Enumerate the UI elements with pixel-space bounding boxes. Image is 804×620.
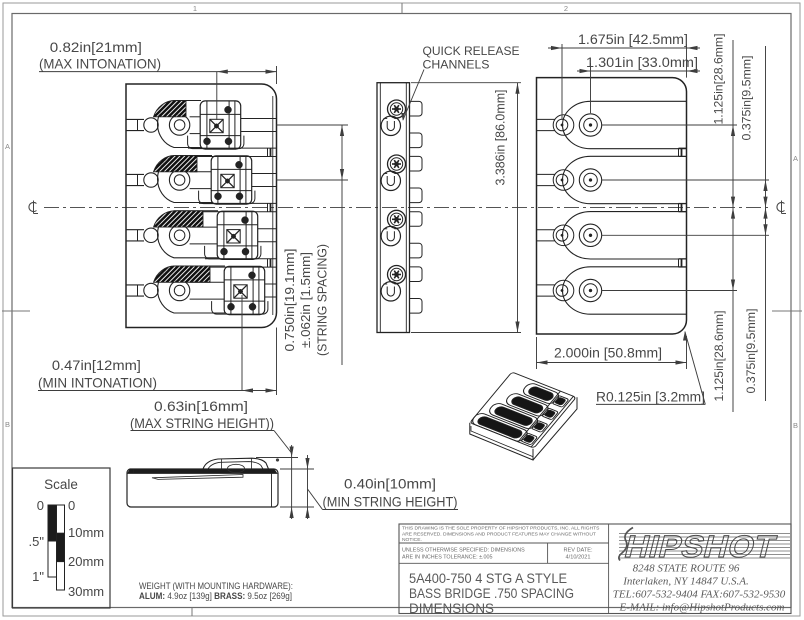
svg-text:5A400-750 4 STG A STYLE: 5A400-750 4 STG A STYLE [409, 570, 567, 586]
bottom view string channel 2 [537, 173, 555, 175]
svg-text:B: B [5, 420, 10, 429]
svg-text:QUICK RELEASE: QUICK RELEASE [423, 44, 520, 58]
svg-text:(MIN INTONATION): (MIN INTONATION) [38, 376, 157, 391]
dimension 3.386in extension lines [411, 82, 521, 84]
centerline [44, 207, 770, 209]
svg-text:1.675in [42.5mm]: 1.675in [42.5mm] [578, 32, 688, 47]
saddle 2 top view base outline [158, 156, 212, 203]
saddle 4 top view string tab [127, 284, 145, 286]
svg-text:0.82in[21mm]: 0.82in[21mm] [50, 40, 142, 55]
rear view saddle 3 height screw [388, 210, 406, 228]
saddle 1 screws black dots [225, 106, 232, 113]
side view left step [133, 469, 135, 474]
leader max string height [274, 431, 292, 454]
svg-text:30mm: 30mm [68, 584, 104, 599]
string line extensions right of top view [277, 124, 349, 126]
svg-text:2: 2 [564, 4, 568, 13]
saddle 1 hatched ramp [154, 100, 187, 116]
saddle 1 screw neck [190, 116, 201, 118]
saddle 2 exit channel [252, 173, 277, 175]
leader min string height [308, 489, 323, 510]
svg-text:1.125in[28.6mm]: 1.125in[28.6mm] [712, 34, 726, 125]
saddle 3 hatched ramp [154, 211, 204, 227]
quick release slot 2 top view [199, 202, 277, 204]
svg-text:1.301in [33.0mm]: 1.301in [33.0mm] [586, 55, 698, 70]
saddle 4 screws black dots [249, 272, 256, 279]
saddle 4 exit channel [265, 283, 277, 285]
svg-text:0.750in[19.1mm]: 0.750in[19.1mm] [283, 249, 297, 352]
svg-text:REV DATE:: REV DATE: [563, 548, 593, 554]
bottom view screw hole 1 [556, 119, 568, 131]
bottom view saddle pocket 3 [563, 212, 687, 259]
dimension 1.301in [577, 70, 700, 72]
svg-text:E-MAIL: info@HipshotProducts.c: E-MAIL: info@HipshotProducts.com [619, 602, 785, 614]
svg-text:3.386in [86.0mm]: 3.386in [86.0mm] [494, 90, 508, 186]
saddle 2 top view string ferrule [169, 170, 189, 190]
svg-text:NOTICE.: NOTICE. [402, 537, 422, 543]
saddle 2 string groove bowtie [221, 174, 234, 187]
saddle 4 top view string ferrule [169, 280, 189, 300]
bottom view screw pocket 3 [553, 225, 574, 246]
bottom view saddle pocket 1 [563, 101, 687, 148]
saddle 4 block [224, 266, 265, 314]
extension line saddle1 screw [216, 72, 218, 120]
svg-text:A: A [793, 154, 798, 163]
saddle 1 top view string hole small [144, 118, 158, 132]
max string height dimension [256, 457, 298, 459]
svg-text:(MAX STRING HEIGHT)): (MAX STRING HEIGHT)) [130, 416, 274, 431]
min string height dimension [280, 506, 314, 508]
svg-text:10mm: 10mm [68, 525, 104, 540]
zone tick left [2, 310, 30, 312]
rear view saddle 2 height screw [388, 155, 406, 173]
saddle 1 block [200, 101, 241, 149]
bottom view plate [537, 78, 687, 334]
centerline symbol right [777, 201, 786, 214]
dimension 0.375in vertical line [765, 46, 767, 401]
dimension 0.47in dim line [38, 390, 277, 392]
extension line plate right top [276, 66, 278, 84]
svg-text:(MAX INTONATION): (MAX INTONATION) [39, 57, 161, 72]
svg-text:1: 1 [193, 4, 197, 13]
svg-text:0: 0 [37, 498, 44, 513]
saddle 3 top view string ferrule [169, 225, 189, 245]
svg-text:BASS BRIDGE .750 SPACING: BASS BRIDGE .750 SPACING [409, 585, 574, 601]
svg-text:20mm: 20mm [68, 554, 104, 569]
rear view saddle 1 posts [410, 101, 423, 116]
bottom view screw pocket 2 [553, 170, 574, 191]
saddle 4 hatched ramp [154, 266, 211, 282]
svg-text:UNLESS OTHERWISE SPECIFIED: DI: UNLESS OTHERWISE SPECIFIED: DIMENSIONS [402, 548, 525, 554]
saddle 1 exit channel [241, 118, 277, 120]
svg-text:CHANNELS: CHANNELS [423, 58, 490, 72]
svg-text:Interlaken, NY 14847 U.S.A.: Interlaken, NY 14847 U.S.A. [622, 576, 749, 588]
extension lines for 2.000in [536, 337, 538, 369]
saddle 4 screw neck [190, 281, 225, 283]
saddle 2 screw neck [190, 171, 212, 173]
svg-text:(STRING SPACING): (STRING SPACING) [316, 244, 330, 356]
zone tick bottom [191, 608, 193, 617]
side view top face dark edge [128, 469, 278, 474]
svg-text:ALUM: 4.9oz [139g] BRASS: 9.5o: ALUM: 4.9oz [139g] BRASS: 9.5oz [269g] [139, 591, 292, 601]
bottom view screw pocket 4 [553, 280, 574, 301]
saddle 3 screws black dots [242, 217, 249, 224]
title block outline [399, 524, 791, 614]
svg-text:±.062in [1.5mm]: ±.062in [1.5mm] [299, 252, 313, 348]
bottom view string channel 4 [537, 284, 555, 286]
top view bridge plate [126, 84, 277, 328]
svg-text:0.47in[12mm]: 0.47in[12mm] [52, 358, 141, 373]
svg-text:2.000in [50.8mm]: 2.000in [50.8mm] [554, 346, 662, 361]
zone tick top [401, 3, 403, 14]
bottom view string channel 1 [537, 118, 555, 120]
dimension 2.000in [537, 362, 687, 364]
svg-text:A: A [5, 142, 10, 151]
bottom view screw pocket 1 [553, 115, 574, 136]
svg-text:TEL:607-532-9404 FAX:607-532-9: TEL:607-532-9404 FAX:607-532-9530 [613, 589, 786, 601]
bottom view string ferrule 4 [579, 279, 601, 301]
bottom view screw hole 3 [556, 230, 568, 242]
saddle 3 foot plate [205, 246, 261, 259]
dimension 1.125in vertical line [732, 40, 734, 412]
bottom view screw hole 4 [556, 285, 568, 297]
quick release leader [403, 70, 424, 121]
dimension 1.675in [548, 47, 700, 49]
bottom view quick release slot 2 [679, 202, 687, 204]
rear view saddle 2 posts [410, 156, 423, 171]
saddle 3 top view base outline [158, 211, 218, 258]
rear view saddle 3 posts [410, 212, 423, 227]
quick release slot 1 top view [188, 147, 277, 149]
svg-text:8248 STATE ROUTE 96: 8248 STATE ROUTE 96 [633, 563, 740, 575]
rear view saddle 1 height screw [388, 100, 406, 118]
svg-text:1.125in[28.6mm]: 1.125in[28.6mm] [712, 311, 726, 402]
saddle 1 top view base outline [158, 101, 201, 148]
rear view plate [377, 83, 410, 333]
saddle 1 string groove bowtie [210, 119, 223, 132]
saddle 3 string groove bowtie [227, 230, 240, 243]
rear view saddle 3 release channel [381, 226, 400, 245]
string line extensions right of bottom view [602, 124, 737, 126]
rear view saddle 2 release channel [381, 171, 400, 190]
string spacing dimension line [341, 125, 343, 365]
svg-text:ARE RESERVED. DIMENSIONS AND P: ARE RESERVED. DIMENSIONS AND PRODUCT FEA… [402, 531, 596, 537]
saddle 4 foot plate [212, 301, 268, 314]
saddle 3 top view string tab [127, 229, 145, 231]
saddle 1 top view string tab [127, 118, 145, 120]
centerline symbol left [29, 201, 38, 214]
svg-text:Scale: Scale [44, 477, 78, 492]
scale bar inches [48, 505, 57, 541]
bottom view screw hole 2 [556, 174, 568, 186]
side view saddle profile [203, 458, 269, 469]
saddle 4 top view base outline [158, 266, 225, 313]
bottom view string channel 3 [537, 229, 555, 231]
extension line plate right bottom [276, 328, 278, 396]
saddle 3 screw neck [190, 226, 218, 228]
bottom view saddle pocket 4 [562, 267, 686, 314]
top view bridge plate inner edge line [272, 96, 274, 315]
saddle 4 top view string hole small [144, 283, 158, 297]
svg-text:.5": .5" [29, 534, 45, 549]
dot between dims [276, 459, 279, 462]
svg-text:0.63in[16mm]: 0.63in[16mm] [154, 399, 248, 414]
saddle 2 foot plate [199, 191, 255, 204]
svg-text:HIPSHOT: HIPSHOT [621, 529, 780, 563]
bottom view saddle pocket 2 [563, 156, 687, 203]
side view intonation screw wedge [152, 475, 243, 480]
saddle 3 exit channel [258, 228, 277, 230]
rear view saddle 4 release channel [381, 282, 400, 301]
saddle 2 top view string hole small [144, 173, 158, 187]
bottom view quick release slot 3 [679, 258, 687, 260]
quick release slot 3 top view [205, 258, 277, 260]
svg-text:THIS DRAWING IS THE SOLE PROPE: THIS DRAWING IS THE SOLE PROPERTY OF HIP… [402, 526, 600, 532]
saddle 2 block [211, 156, 252, 204]
bottom view string ferrule 1 [579, 114, 601, 136]
side view saddle roller [228, 464, 245, 472]
saddle 3 block [217, 211, 258, 259]
svg-text:0: 0 [68, 498, 75, 513]
dimension 3.386in dim line [517, 83, 519, 333]
svg-text:DIMENSIONS: DIMENSIONS [409, 600, 494, 616]
svg-text:1": 1" [32, 569, 44, 584]
bottom view string ferrule 3 [579, 224, 601, 246]
bottom view string ferrule 2 [579, 169, 601, 191]
svg-text:ARE IN INCHES TOLERANCE: ±.005: ARE IN INCHES TOLERANCE: ±.005 [402, 555, 493, 561]
saddle 2 hatched ramp [154, 155, 198, 171]
svg-text:0.375in[9.5mm]: 0.375in[9.5mm] [744, 309, 758, 394]
rear view saddle 1 release channel [381, 116, 400, 135]
saddle 2 screws black dots [236, 161, 243, 168]
svg-text:0.375in[9.5mm]: 0.375in[9.5mm] [740, 56, 754, 141]
svg-text:WEIGHT (WITH MOUNTING HARDWARE: WEIGHT (WITH MOUNTING HARDWARE): [139, 581, 293, 591]
side view base plate [127, 469, 278, 507]
rear view saddle 4 posts [410, 267, 423, 282]
svg-text:R0.125in [3.2mm]: R0.125in [3.2mm] [596, 390, 705, 405]
svg-text:B: B [793, 421, 798, 430]
extension lines for 1.675 and 1.301 [561, 44, 563, 119]
scale legend box [13, 468, 111, 608]
zone tick right [772, 310, 802, 312]
saddle 4 string groove bowtie [234, 285, 247, 298]
rear view saddle 4 height screw [388, 266, 406, 284]
svg-text:(MIN STRING HEIGHT): (MIN STRING HEIGHT) [323, 495, 458, 510]
hipshot logo [619, 528, 790, 564]
extension line saddle4 screw down [241, 295, 243, 391]
isometric view bridge [470, 372, 577, 460]
saddle 2 top view string tab [127, 173, 145, 175]
svg-text:4/10/2021: 4/10/2021 [566, 555, 591, 561]
saddle 1 foot plate [188, 136, 244, 149]
bottom view quick release slot 1 [679, 147, 687, 149]
saddle 3 top view string hole small [144, 228, 158, 242]
scale bar mm [57, 505, 65, 533]
svg-text:0.40in[10mm]: 0.40in[10mm] [344, 477, 436, 492]
dimension 0.82in leader and dim line [39, 71, 277, 73]
saddle 1 top view string ferrule [169, 115, 189, 135]
